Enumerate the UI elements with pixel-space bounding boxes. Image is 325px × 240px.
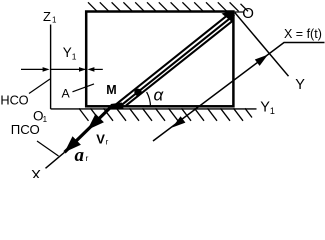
upper arrowhead (points up-right) <box>255 55 268 66</box>
svg-text:1: 1 <box>72 52 77 62</box>
connector right arrowhead (points right at block edge) <box>79 67 86 72</box>
top wall hatching baseline <box>233 11 245 13</box>
X axis of moving frame: thick segment along rod extension <box>65 107 112 152</box>
Y axis of moving frame (from O down-right) <box>235 13 289 76</box>
svg-text:M: M <box>106 83 116 97</box>
dimension arrow left (points right at Z1 axis) <box>21 68 44 70</box>
svg-text:X: X <box>31 167 41 178</box>
svg-text:a: a <box>75 145 85 166</box>
A leader line <box>73 84 95 92</box>
dimension arrow right (points left at block edge) <box>94 68 103 70</box>
svg-text:Z: Z <box>43 9 51 24</box>
angle alpha arc <box>147 92 151 107</box>
rod center line <box>119 15 234 107</box>
svg-text:r: r <box>106 138 109 147</box>
Y1 axis (fixed frame horizontal axis) <box>51 108 257 110</box>
ar arrowhead <box>65 136 81 152</box>
X axis thin end segment <box>46 152 65 168</box>
svg-text:A: A <box>62 87 71 101</box>
svg-text:1: 1 <box>43 115 48 124</box>
knot at rod crossing bottom edge <box>111 103 124 110</box>
bottom guide hatching strokes <box>79 108 252 121</box>
svg-text:НСО: НСО <box>0 93 28 108</box>
rod upper-left line <box>113 11 232 107</box>
Vr arrowhead <box>88 114 104 130</box>
svg-text:O: O <box>242 5 254 22</box>
top wall hatching strokes <box>88 2 248 11</box>
svg-text:X = f(t): X = f(t) <box>284 27 322 41</box>
HCO leader line <box>29 79 50 94</box>
corner blob at O <box>222 11 234 24</box>
PCO leader line <box>37 141 59 156</box>
svg-text:α: α <box>154 86 165 105</box>
block (sliding body) rectangle <box>86 12 233 107</box>
svg-text:Y: Y <box>260 100 270 116</box>
rod lower-right line <box>126 20 234 106</box>
svg-text:ПСО: ПСО <box>11 122 40 137</box>
svg-text:1: 1 <box>52 16 57 25</box>
svg-text:V: V <box>96 131 105 146</box>
lower arrowhead (points down-left) <box>172 116 185 127</box>
dimension connector line between Z1 axis and block edge <box>50 68 85 70</box>
point M dot <box>134 89 141 96</box>
svg-text:Y: Y <box>63 45 72 60</box>
X=f(t) double arrow line parallel to rod <box>153 43 325 142</box>
svg-text:1: 1 <box>270 106 275 116</box>
Z1 axis (fixed frame vertical axis) <box>50 25 52 109</box>
svg-text:r: r <box>86 153 89 163</box>
svg-text:Y: Y <box>295 77 305 93</box>
